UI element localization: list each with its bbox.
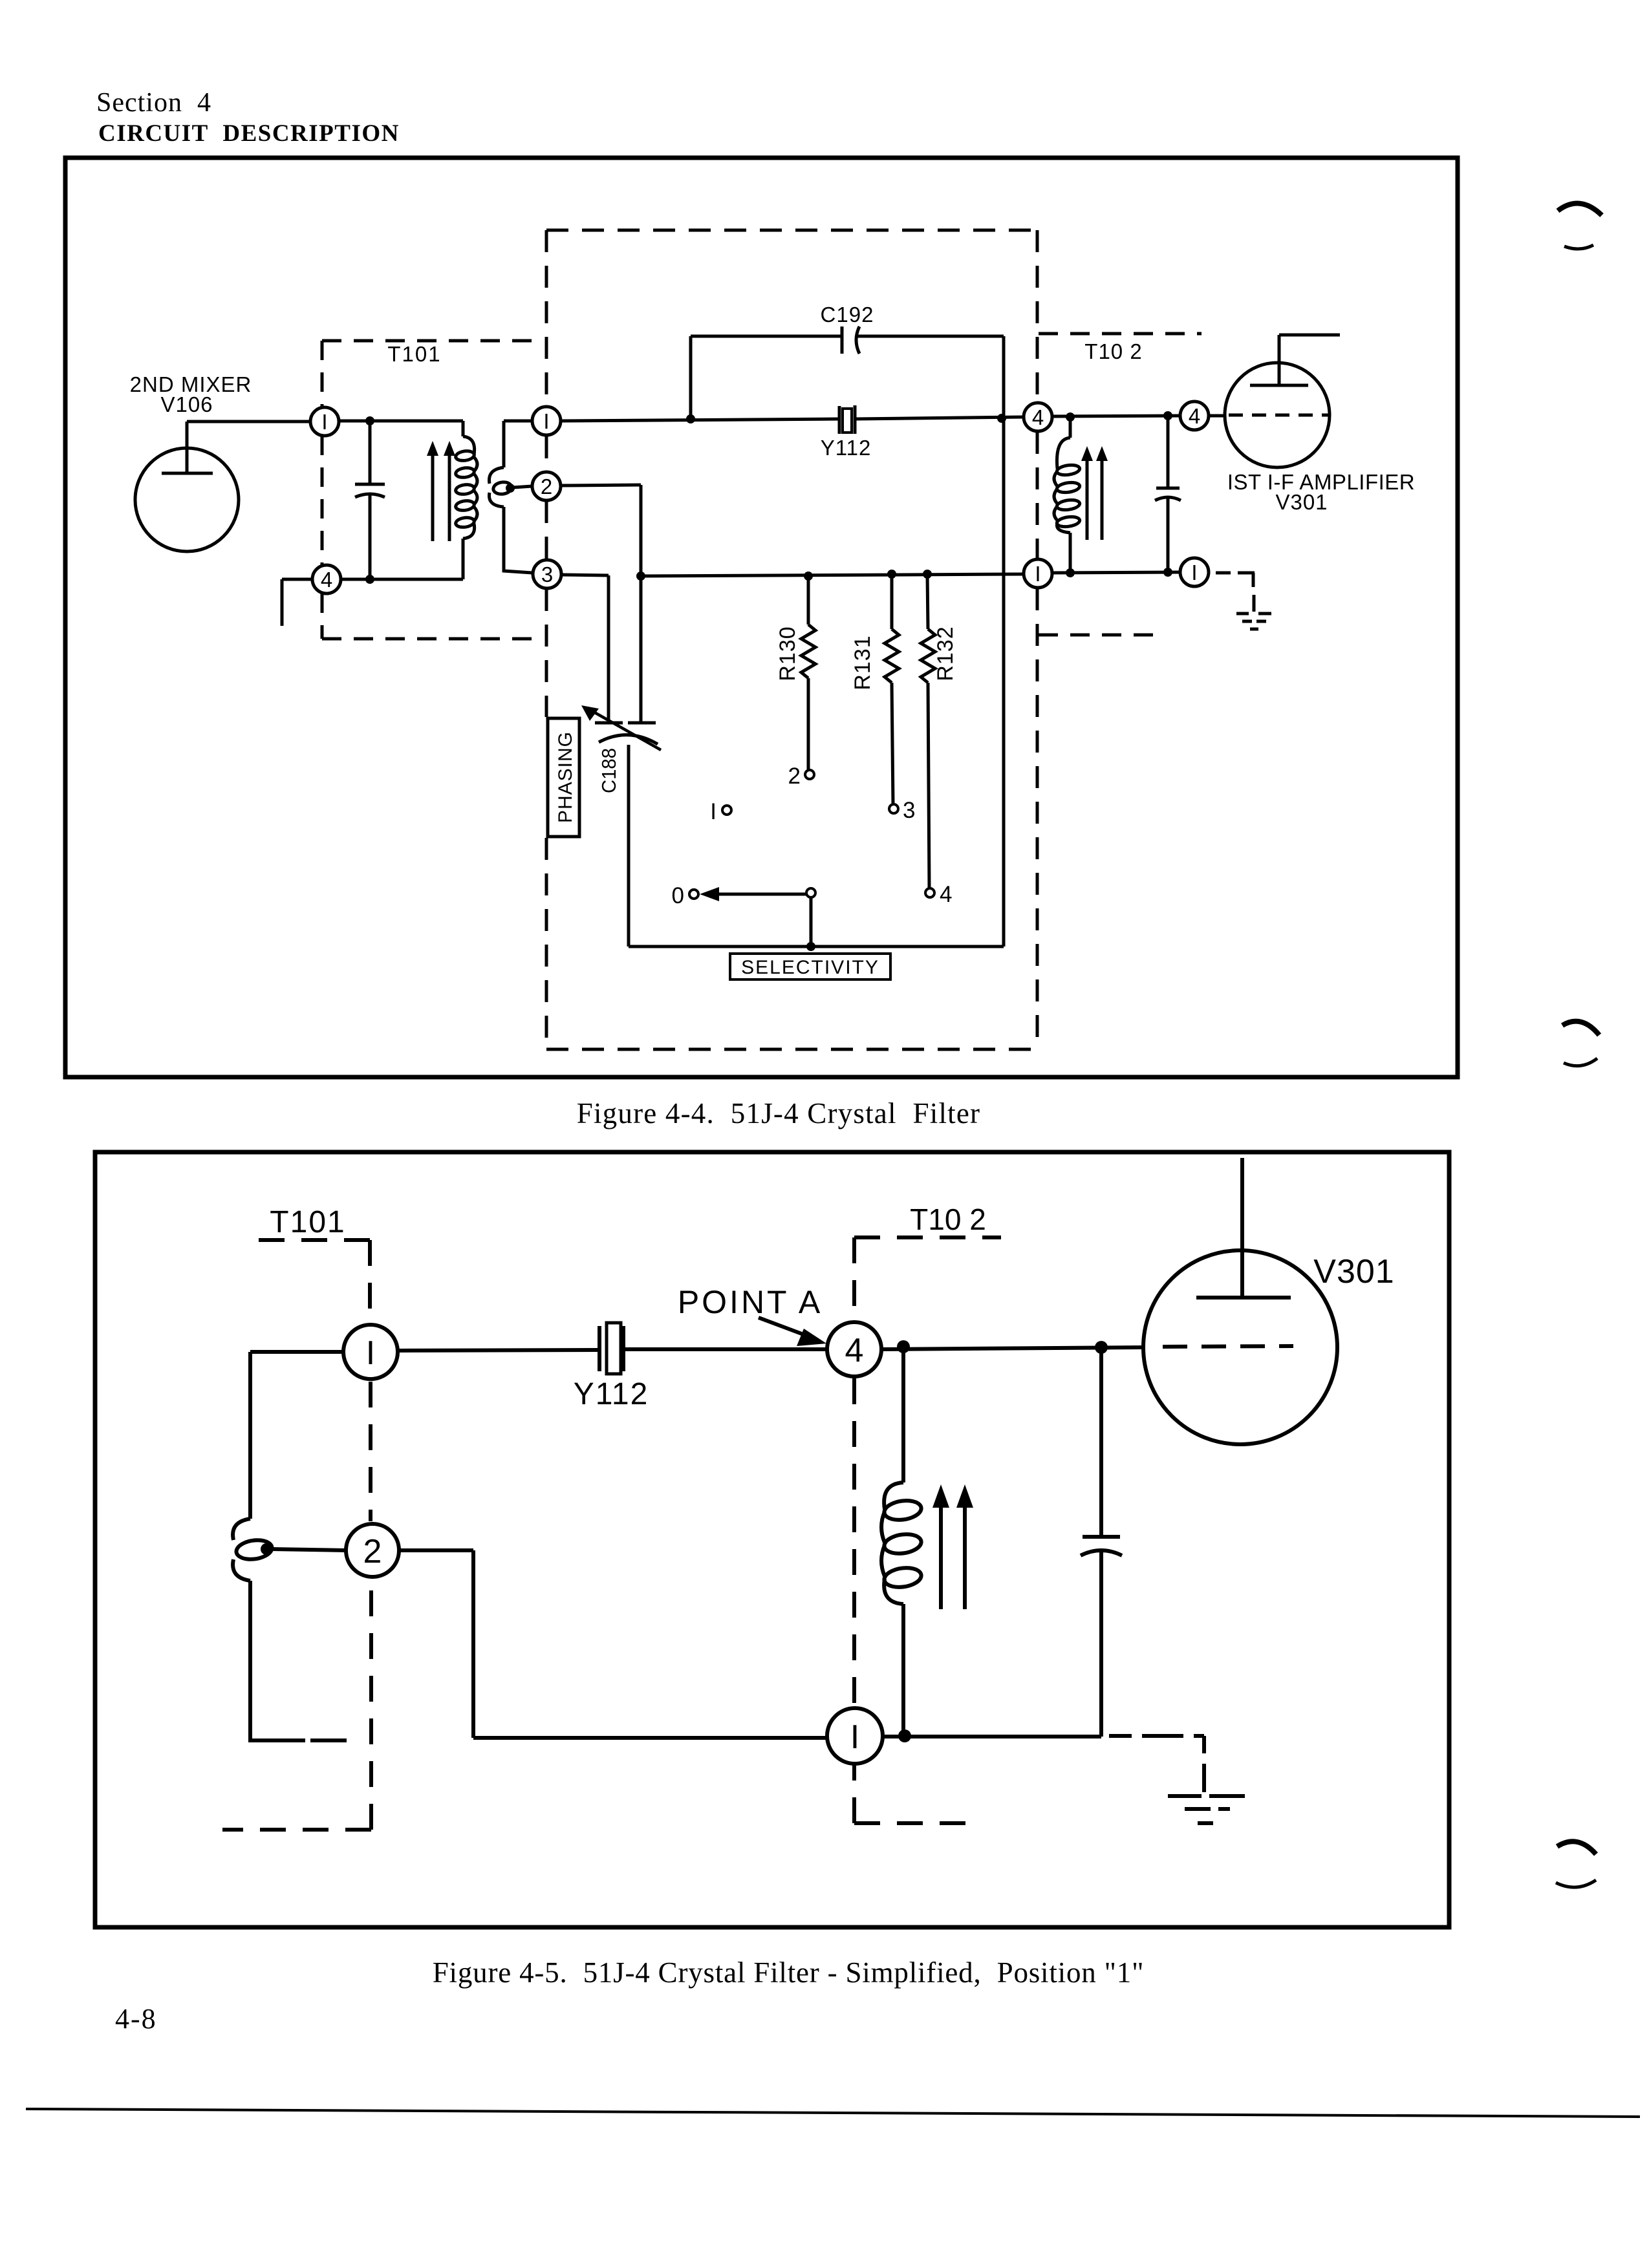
junction node at tank cap top	[365, 416, 374, 425]
label C192	[821, 303, 874, 326]
svg-text:T101: T101	[270, 1205, 345, 1239]
label T101 (fig 4-4)	[387, 342, 441, 366]
wire T102 top	[1052, 416, 1180, 416]
capacitor T101 tank (upper lead)	[369, 421, 372, 484]
svg-text:C192: C192	[821, 303, 874, 326]
terminal circle 1 (T101 left)	[310, 407, 339, 436]
terminal circle 1 (T102 left)	[1024, 559, 1052, 588]
junction node coil top	[1066, 412, 1075, 422]
terminal circle 1 (T102 right)	[1180, 558, 1209, 586]
svg-text:R130: R130	[775, 626, 800, 681]
label T101 (fig 4-5)	[270, 1205, 345, 1239]
wire pin3 to phasing branch	[561, 575, 609, 723]
tube V301 plate bar	[1250, 384, 1308, 387]
tap node (fig 4-5)	[261, 1543, 272, 1555]
junction node cap top (fig 4-5)	[1095, 1341, 1108, 1354]
svg-text:Y112: Y112	[574, 1377, 649, 1411]
svg-text:I: I	[710, 799, 717, 824]
wire pin1 to cap bottom	[883, 1735, 1101, 1738]
capacitor C192	[842, 326, 859, 354]
label Y112 (fig 4-4)	[821, 436, 872, 460]
svg-text:4: 4	[321, 568, 332, 592]
wire tap to pin 2 (fig 4-5)	[272, 1549, 346, 1550]
tube V301 envelope (fig 4-5)	[1143, 1250, 1337, 1444]
svg-text:2: 2	[363, 1533, 382, 1570]
tube V106 envelope	[135, 448, 239, 551]
capacitor tank (fig 4-5)	[1081, 1347, 1122, 1737]
binder ring mark middle	[1562, 1022, 1599, 1066]
binder ring mark top	[1558, 204, 1602, 250]
label V106	[160, 392, 213, 416]
svg-text:4-8: 4-8	[115, 2003, 157, 2035]
coupling arrows T101	[427, 441, 455, 541]
switch contact 3	[889, 798, 915, 823]
svg-text:Figure 4-4. 51J-4 Crystal Fi: Figure 4-4. 51J-4 Crystal Filter	[577, 1097, 981, 1129]
junction node cap top	[1163, 411, 1172, 420]
terminal circle 3 (filter)	[533, 560, 561, 588]
dashed wire to ground (fig 4-5)	[1109, 1736, 1204, 1792]
svg-text:I: I	[366, 1334, 375, 1372]
terminal circle 1 (filter input)	[532, 407, 561, 435]
tube V301 plate lead (fig 4-5)	[1240, 1158, 1244, 1298]
label PHASING boxed	[548, 718, 579, 837]
svg-text:T101: T101	[387, 342, 441, 366]
secondary tap node	[506, 484, 515, 493]
svg-text:C188: C188	[598, 748, 620, 793]
svg-text:I: I	[321, 410, 327, 434]
caption Figure 4-5	[433, 1956, 1145, 1989]
svg-text:4: 4	[845, 1332, 864, 1369]
tube V106 plate bar	[162, 472, 213, 475]
C192 branch top wire	[691, 335, 1004, 338]
label V301 (fig 4-5)	[1313, 1253, 1394, 1290]
svg-text:T10 2: T10 2	[910, 1203, 986, 1236]
capacitor C188 plates	[595, 723, 658, 744]
junction node phasing top	[636, 572, 645, 581]
svg-text:Y112: Y112	[821, 436, 872, 460]
label POINT A	[678, 1284, 823, 1320]
label R132	[933, 626, 958, 681]
wire pin1 to crystal	[561, 419, 839, 421]
crystal filter dashed box	[546, 230, 1042, 1049]
coupling arrows T102	[1081, 446, 1108, 540]
switch rotor lead	[810, 897, 813, 947]
tube V301 envelope (fig 4-4)	[1225, 363, 1330, 467]
svg-text:CIRCUIT DESCRIPTION: CIRCUIT DESCRIPTION	[98, 120, 400, 147]
svg-text:0: 0	[672, 883, 684, 908]
POINT A arrow	[759, 1318, 826, 1346]
switch rotor arrow	[700, 887, 806, 901]
terminal circle 4 (fig 4-5)	[827, 1322, 881, 1376]
switch contact 1	[710, 799, 731, 824]
junction node R131 top	[887, 570, 896, 579]
wire pin4 right (fig 4-5)	[881, 1347, 1143, 1349]
svg-text:R132: R132	[933, 626, 958, 681]
svg-text:R131: R131	[850, 635, 875, 690]
coupling arrows (fig 4-5)	[932, 1484, 973, 1609]
terminal circle 4 (T102 right)	[1180, 401, 1209, 430]
switch rotor contact	[806, 888, 815, 897]
resistor R131	[885, 574, 899, 805]
label T102 (fig 4-5)	[910, 1203, 986, 1236]
switch contact 2	[788, 764, 814, 789]
terminal circle 4 (T102 left)	[1024, 403, 1052, 431]
junction node C192 right	[997, 414, 1006, 423]
svg-text:Figure 4-5. 51J-4 Crystal Fil: Figure 4-5. 51J-4 Crystal Filter - Simpl…	[433, 1956, 1145, 1989]
svg-text:3: 3	[903, 798, 915, 823]
inductor T102 secondary winding	[1054, 417, 1080, 573]
crystal Y112 (fig 4-4)	[839, 405, 855, 434]
tube V301 plate lead	[1279, 335, 1340, 385]
capacitor T101 tank (lower lead)	[369, 495, 372, 579]
label IST I-F AMPLIFIER	[1227, 470, 1415, 494]
wire secondary top lead	[504, 421, 532, 467]
wire T102 bottom	[1052, 572, 1180, 573]
junction node coil bottom	[1066, 568, 1075, 577]
capacitor C188 arrow	[581, 705, 661, 750]
T101 coupling loop (fig 4-5)	[233, 1519, 347, 1740]
wire tap to pin 2	[513, 486, 532, 487]
svg-text:2: 2	[788, 764, 801, 789]
switch contact 4	[925, 882, 952, 907]
tube V106 plate lead	[186, 422, 189, 473]
terminal circle 2 (fig 4-5)	[346, 1524, 399, 1577]
C192 branch left riser	[689, 336, 693, 419]
wire pin1 to crystal (fig 4-5)	[398, 1350, 599, 1351]
wire pin2 to bottom bus	[399, 1550, 827, 1738]
crystal Y112 (fig 4-5)	[599, 1323, 623, 1374]
label T102 (fig 4-4)	[1084, 339, 1142, 363]
junction node R132 top	[923, 570, 932, 579]
riser pin2-wire to phasing	[561, 485, 641, 723]
junction node cap bottom	[1163, 568, 1172, 577]
svg-text:4: 4	[1032, 405, 1044, 429]
T102 dashed bracket (fig 4-5)	[854, 1237, 1001, 1823]
label R131	[850, 635, 875, 690]
capacitor T102 tank	[1155, 416, 1181, 572]
capacitor T101 tank plates	[355, 484, 385, 497]
T102 dashed bracket	[1039, 334, 1202, 635]
wire stub left of terminal 4	[282, 579, 312, 626]
svg-text:V301: V301	[1313, 1253, 1394, 1290]
label 2ND MIXER	[130, 372, 252, 396]
chassis ground (fig 4-4)	[1236, 614, 1271, 629]
svg-text:4: 4	[940, 882, 952, 907]
junction node C192 left	[686, 414, 695, 423]
label R130	[775, 626, 800, 681]
junction node rotor to bus	[806, 942, 815, 951]
T101 dashed box	[322, 341, 544, 639]
wire pin1 corner (fig 4-5)	[250, 1352, 343, 1519]
svg-text:3: 3	[541, 562, 553, 586]
resistor R130	[801, 576, 815, 770]
wire pin1 to coil top	[339, 420, 463, 423]
terminal circle 4 (T101 left)	[312, 565, 341, 594]
svg-text:Section 4: Section 4	[96, 88, 211, 118]
svg-text:I: I	[1035, 562, 1040, 586]
header text CIRCUIT DESCRIPTION	[98, 120, 400, 147]
T101 dashed bracket (fig 4-5)	[222, 1240, 371, 1830]
inductor T101 primary winding	[456, 421, 477, 579]
junction node coil top (fig 4-5)	[897, 1340, 910, 1353]
header text Section 4	[96, 88, 211, 118]
inductor T102 winding (fig 4-5)	[881, 1347, 921, 1733]
svg-text:V301: V301	[1275, 490, 1328, 514]
tube V301 plate bar (fig 4-5)	[1196, 1296, 1291, 1300]
resistor R132	[921, 574, 935, 888]
C188 rotor lead	[627, 745, 630, 947]
bottom bus wire	[641, 574, 1024, 576]
svg-text:T10 2: T10 2	[1084, 339, 1142, 363]
wire V106 to T101 pin 1	[187, 420, 310, 423]
svg-text:PHASING: PHASING	[555, 731, 576, 823]
terminal circle 1 (fig 4-5 left)	[343, 1325, 398, 1379]
footer rule	[26, 2109, 1640, 2117]
page number 4-8	[115, 2003, 157, 2035]
T101 secondary coupling loop	[489, 467, 532, 573]
junction node at tank cap bottom	[365, 575, 374, 584]
chassis ground (fig 4-5)	[1168, 1796, 1245, 1823]
svg-text:4: 4	[1189, 404, 1200, 428]
dashed wire to ground (fig 4-4)	[1216, 573, 1255, 612]
wire coil bottom to pin4	[341, 578, 463, 581]
svg-text:2: 2	[541, 475, 552, 498]
terminal circle 2 (filter)	[532, 472, 561, 500]
figure 4-4 border frame	[65, 158, 1458, 1077]
junction node R130 top	[804, 572, 813, 581]
svg-text:I: I	[543, 409, 549, 433]
svg-text:I: I	[1191, 561, 1197, 584]
switch contact 0	[672, 883, 698, 908]
tube V301 grid dashes (fig 4-5)	[1163, 1346, 1293, 1347]
C192 branch right riser	[1002, 336, 1006, 947]
svg-text:SELECTIVITY: SELECTIVITY	[741, 957, 879, 978]
label C188	[598, 748, 620, 793]
tube V301 grid dashes	[1229, 414, 1330, 417]
caption Figure 4-4	[577, 1097, 981, 1129]
binder ring mark bottom	[1556, 1841, 1596, 1887]
wire pin4 to V301 grid	[1209, 414, 1225, 418]
junction node coil bottom (fig 4-5)	[898, 1729, 911, 1742]
label Y112 (fig 4-5)	[574, 1377, 649, 1411]
svg-text:POINT A: POINT A	[678, 1284, 823, 1320]
label V301 (fig 4-4)	[1275, 490, 1328, 514]
wire crystal to pin 4 (fig 4-5)	[623, 1347, 827, 1351]
terminal circle 1 (fig 4-5 right)	[827, 1708, 883, 1764]
svg-text:I: I	[850, 1718, 859, 1756]
figure 4-5 border frame	[95, 1152, 1449, 1927]
svg-text:V106: V106	[160, 392, 213, 416]
selectivity bottom bus	[629, 945, 1004, 948]
label SELECTIVITY boxed	[730, 954, 890, 979]
wire crystal to T102 pin 4	[855, 417, 1024, 419]
